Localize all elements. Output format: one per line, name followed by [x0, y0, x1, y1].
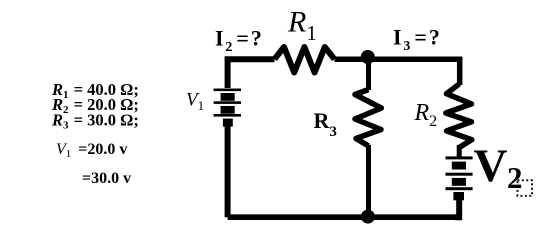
resistor R3	[355, 90, 381, 147]
svg-text:R2: R2	[414, 100, 438, 130]
svg-text:V1=20.0 v: V1=20.0 v	[56, 141, 127, 160]
node: bottom junction	[361, 210, 375, 224]
svg-text:=30.0 v: =30.0 v	[82, 170, 131, 187]
svg-text:V1: V1	[186, 90, 204, 114]
wire: bottom	[228, 214, 460, 220]
wire: R3 top lead	[366, 58, 371, 90]
empty text placeholder box (dotted)	[518, 180, 533, 196]
node: top junction	[361, 50, 375, 64]
wire: R3 bottom lead	[366, 145, 371, 217]
wire: R2 to battery V2 lead	[457, 145, 462, 157]
svg-text:V2: V2	[474, 140, 523, 195]
svg-text:I2 = ?: I2 = ?	[215, 26, 262, 56]
svg-text:R3: R3	[314, 108, 337, 140]
wire: top-left corner to R1	[228, 59, 275, 88]
wire: V2 bottom lead	[455, 200, 459, 218]
battery V2	[446, 156, 473, 200]
battery V1	[214, 89, 241, 127]
wire: R1 to top-right corner	[335, 59, 460, 85]
svg-text:R1: R1	[287, 6, 317, 46]
wire: V1 bottom lead (left branch down)	[225, 126, 231, 217]
resistor R2	[446, 84, 472, 148]
resistor R1	[275, 47, 335, 73]
svg-text:I3 = ?: I3 = ?	[393, 25, 440, 55]
